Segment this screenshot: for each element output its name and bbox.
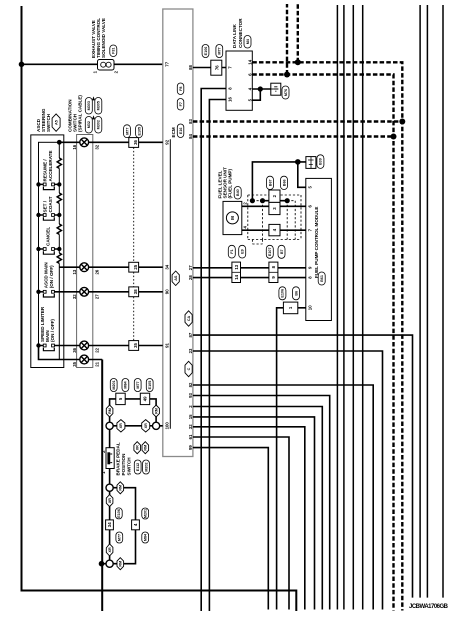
svg-text:E16: E16 bbox=[179, 128, 183, 135]
spiral cable box bbox=[77, 135, 93, 368]
svg-text:M84: M84 bbox=[124, 380, 128, 388]
svg-text:88: 88 bbox=[188, 65, 193, 70]
connector oval F1 bbox=[228, 245, 235, 258]
connector oval M84 bbox=[142, 532, 149, 543]
svg-text:93: 93 bbox=[188, 393, 193, 398]
svg-text:E106: E106 bbox=[204, 47, 208, 56]
node output top bbox=[57, 140, 62, 145]
hexagon RM lower right branch bbox=[117, 482, 124, 494]
svg-text:XR: XR bbox=[135, 445, 139, 450]
inline connector box 38 on wire 292 bbox=[129, 287, 139, 297]
wire pass-through vertical 4 bbox=[362, 5, 364, 610]
connector oval B6 bbox=[293, 287, 300, 300]
svg-text:22: 22 bbox=[95, 347, 100, 352]
svg-text:RM: RM bbox=[144, 445, 148, 451]
spiral cable crossing symbol row 16/32 bbox=[80, 138, 89, 147]
svg-text:14: 14 bbox=[234, 274, 239, 279]
svg-text:M201: M201 bbox=[143, 509, 147, 518]
svg-text:M77: M77 bbox=[136, 381, 140, 388]
wire ground bus output 35/21 turning down bbox=[39, 346, 103, 360]
svg-text:(SPIRAL CABLE): (SPIRAL CABLE) bbox=[78, 95, 83, 132]
inline connector box 36 on wire 142 bbox=[129, 138, 139, 148]
label ASCD STEERING SWITCH bbox=[36, 108, 51, 132]
splice ring right upper bbox=[153, 422, 160, 429]
svg-text:FUEL PUMP CONTROL MODULE: FUEL PUMP CONTROL MODULE bbox=[314, 207, 319, 278]
switch RESUME/ACCELERATE bbox=[36, 182, 61, 189]
svg-text:XR: XR bbox=[108, 498, 112, 503]
svg-text:27: 27 bbox=[188, 265, 193, 270]
svg-text:E106: E106 bbox=[117, 509, 121, 518]
wire steering switch output 16/32 to ECM pin 92 bbox=[59, 141, 163, 143]
svg-text:36: 36 bbox=[72, 347, 77, 352]
svg-text:34: 34 bbox=[164, 264, 169, 269]
svg-text:M303: M303 bbox=[87, 101, 91, 110]
svg-text:M84: M84 bbox=[143, 533, 147, 541]
svg-text:B39: B39 bbox=[319, 158, 323, 165]
wire DLC pin 14 CAN to corner down (shielded dashed) bbox=[252, 62, 402, 610]
hexagon C bbox=[185, 361, 192, 376]
label DATA LINK CONNECTOR bbox=[232, 18, 243, 48]
svg-text:B7: B7 bbox=[280, 249, 284, 254]
connector link dotted line bbox=[133, 147, 135, 340]
svg-text:F8: F8 bbox=[179, 87, 183, 91]
wire ECM pin 61 bbox=[193, 437, 289, 610]
inline connector box 35 on wire 345 bbox=[129, 341, 139, 351]
resistor R3 bbox=[57, 224, 62, 234]
svg-text:35: 35 bbox=[133, 343, 138, 348]
connector oval M77 bbox=[116, 532, 123, 543]
svg-text:100: 100 bbox=[164, 422, 169, 430]
svg-text:M77: M77 bbox=[218, 47, 222, 54]
node ground tie bbox=[258, 86, 263, 91]
connector oval B7 bbox=[278, 245, 285, 258]
svg-text:10: 10 bbox=[307, 305, 312, 310]
connector oval E107 bbox=[266, 245, 273, 258]
wire brake RM variant loop lower bbox=[102, 488, 136, 564]
svg-text:M77: M77 bbox=[125, 128, 129, 135]
svg-text:RESUME /: RESUME / bbox=[43, 159, 48, 182]
connector oval M201 bbox=[142, 508, 149, 519]
connector oval E106 bbox=[279, 287, 286, 300]
svg-text:E106: E106 bbox=[281, 289, 285, 298]
svg-text:RM: RM bbox=[108, 408, 112, 414]
connector oval E106 bbox=[115, 508, 122, 519]
wire brake switch feed down bbox=[109, 426, 111, 448]
spiral cable crossing symbol row 36/22 bbox=[80, 341, 89, 350]
svg-text:BRAKE PEDAL: BRAKE PEDAL bbox=[116, 442, 121, 475]
svg-text:DATA LINK: DATA LINK bbox=[232, 23, 237, 48]
svg-text:28: 28 bbox=[188, 275, 193, 280]
connector oval E106 bbox=[202, 45, 209, 58]
svg-text:36: 36 bbox=[133, 140, 138, 145]
connector oval E105 bbox=[136, 125, 143, 138]
wire ECM pin 28 to FPCM pin 8 bbox=[193, 277, 306, 279]
connector oval M4 bbox=[244, 36, 251, 49]
svg-text:99: 99 bbox=[188, 445, 193, 450]
svg-text:49: 49 bbox=[142, 396, 147, 401]
svg-text:32: 32 bbox=[95, 144, 100, 149]
svg-text:M76: M76 bbox=[284, 89, 288, 96]
connector oval M202 bbox=[143, 460, 150, 474]
inline connector box 34 bbox=[106, 520, 114, 530]
label COMBINATION SWITCH (SPIRAL CABLE) bbox=[68, 95, 83, 132]
svg-text:77: 77 bbox=[164, 61, 169, 66]
wire fuel feed to B39 bbox=[252, 162, 306, 201]
wire DLC pin 4 to ground bbox=[252, 88, 270, 90]
svg-text:92: 92 bbox=[164, 139, 169, 144]
connector oval E16 bbox=[177, 124, 184, 138]
ASCD steering switch outer box bbox=[31, 135, 64, 368]
label FUEL LEVEL SENSOR UNIT (FUEL PUMP) bbox=[218, 167, 233, 199]
ECM internal variant wire bbox=[169, 139, 171, 429]
wire ECM pin 93 bbox=[193, 396, 330, 610]
ASCD steering switch inner housing box bbox=[39, 142, 60, 359]
svg-text:90: 90 bbox=[164, 289, 169, 294]
svg-text:61: 61 bbox=[188, 434, 193, 439]
connector oval B39 bbox=[317, 155, 324, 169]
hexagon RM brake label bbox=[142, 442, 149, 454]
connector oval M77 bbox=[134, 379, 141, 392]
spiral cable crossing symbol row 32/27 bbox=[80, 287, 89, 296]
splice ring lower top bbox=[106, 484, 113, 491]
brake pedal position switch bbox=[106, 448, 114, 469]
svg-text:E107: E107 bbox=[268, 247, 272, 256]
connector oval F7 bbox=[177, 99, 184, 111]
hexagon XR brake label bbox=[134, 442, 141, 454]
switch CANCEL bbox=[36, 247, 61, 254]
svg-text:RM: RM bbox=[119, 485, 123, 491]
wire ECM pin 27 to FPCM pin 9 bbox=[193, 267, 306, 269]
hexagon XR right upper bbox=[142, 420, 150, 432]
svg-text:16: 16 bbox=[72, 144, 77, 149]
node CAN-H bbox=[295, 59, 301, 65]
node pin83 joint bbox=[399, 119, 405, 125]
inline connector cells 13/14 bbox=[232, 262, 241, 282]
svg-text:13: 13 bbox=[234, 264, 239, 269]
wire DLC pin 8 to left and down bbox=[201, 89, 226, 612]
arrow bottom pair bbox=[92, 115, 95, 119]
svg-text:M201: M201 bbox=[112, 380, 116, 389]
svg-text:RM: RM bbox=[154, 408, 158, 414]
svg-text:CA: CA bbox=[187, 316, 191, 322]
wire feed to F31 and ECM pin 77 bbox=[22, 63, 163, 65]
svg-text:M77: M77 bbox=[118, 534, 122, 541]
hexagon RM lower bottom bbox=[117, 558, 124, 570]
connector oval M77 bbox=[124, 125, 131, 138]
node pump feed bbox=[250, 198, 255, 203]
wire DLC pin 16 to left and down bbox=[209, 100, 226, 612]
wire sensor pin 2 to FPCM pin 6 bbox=[242, 205, 306, 207]
spiral cable crossing symbol row 35/21 bbox=[80, 355, 89, 364]
connector oval M305 bbox=[95, 98, 102, 115]
svg-text:B67: B67 bbox=[268, 179, 272, 186]
svg-text:COAST: COAST bbox=[48, 196, 53, 212]
connector oval F8 bbox=[177, 83, 184, 95]
svg-text:SWITCH: SWITCH bbox=[127, 457, 132, 476]
wire DLC pin 6 CAN to corner down (shielded dashed) bbox=[252, 75, 393, 611]
ECM box bbox=[163, 9, 193, 457]
wire ECM pin 15 bbox=[193, 417, 315, 610]
svg-text:SET /: SET / bbox=[43, 200, 48, 212]
inline connector box 1 bbox=[283, 302, 297, 314]
svg-text:E9: E9 bbox=[240, 249, 244, 254]
svg-text:35: 35 bbox=[72, 361, 77, 366]
wire CAN branch up page left bbox=[286, 4, 288, 75]
wire ECM pin 32 bbox=[193, 427, 305, 610]
data link connector box M4 bbox=[226, 51, 252, 110]
svg-text:F7: F7 bbox=[179, 102, 183, 106]
svg-text:SWITCH: SWITCH bbox=[46, 113, 51, 132]
wire ECM pin 84 shielded to CAN vertical bbox=[193, 135, 394, 137]
inline connector cell 3 bbox=[269, 202, 280, 214]
spiral cable crossing symbol row 13/26 bbox=[80, 263, 89, 272]
svg-text:87: 87 bbox=[188, 332, 193, 337]
inline connector box 25 on wire 267 bbox=[129, 262, 139, 272]
resistor R2 bbox=[57, 193, 62, 203]
switch ASCD MAIN (ON/OFF) bbox=[36, 290, 54, 297]
svg-text:(FUEL PUMP): (FUEL PUMP) bbox=[228, 169, 233, 199]
switch SPEED LIMITER MAIN (ON/OFF) bbox=[36, 343, 54, 350]
wire ECM pin 87 bbox=[193, 335, 413, 597]
node pin84 joint bbox=[391, 134, 397, 140]
svg-text:27: 27 bbox=[95, 294, 100, 299]
svg-text:14: 14 bbox=[247, 59, 252, 64]
connector oval B61 bbox=[318, 272, 325, 285]
svg-text:F31: F31 bbox=[112, 48, 116, 54]
svg-text:32: 32 bbox=[72, 294, 77, 299]
wire ECM pin 99 bbox=[193, 448, 268, 610]
splice ring left upper bbox=[106, 422, 113, 429]
hexagon RM left upper bbox=[106, 405, 113, 417]
svg-text:15: 15 bbox=[188, 414, 193, 419]
connector oval M76 bbox=[282, 86, 289, 99]
hexagon AS on variant wire bbox=[172, 271, 179, 286]
connector oval B66 bbox=[281, 176, 288, 189]
wire FPCM pin 10 via connector 1 down page bbox=[277, 308, 306, 610]
node pump tap3 bbox=[285, 198, 290, 203]
connector oval E9 bbox=[239, 245, 246, 258]
arrow top pair bbox=[92, 96, 95, 100]
svg-text:M: M bbox=[230, 216, 235, 220]
svg-text:84: 84 bbox=[188, 134, 193, 139]
wire sensor pin 4 to FPCM pin 7 bbox=[242, 229, 306, 231]
fuel level sensor unit box B40 bbox=[223, 201, 242, 234]
motor symbol fuel pump bbox=[226, 212, 238, 224]
svg-text:13: 13 bbox=[72, 269, 77, 274]
svg-text:34: 34 bbox=[107, 522, 112, 527]
svg-text:A5: A5 bbox=[54, 120, 58, 125]
exhaust valve solenoid F31 bbox=[98, 60, 115, 71]
svg-text:JCBWA1706GB: JCBWA1706GB bbox=[409, 604, 449, 610]
splice ring lower bottom bbox=[106, 560, 113, 567]
wire ASCD MAIN output 32/27 to ECM pin 90 bbox=[54, 291, 163, 293]
wire CAN branch up page right bbox=[297, 4, 299, 62]
connector oval M32 bbox=[85, 117, 92, 134]
svg-text:ECM: ECM bbox=[171, 127, 176, 137]
wire ECM pin 82 bbox=[193, 385, 373, 610]
svg-text:26: 26 bbox=[95, 269, 100, 274]
wire brake RM variant loop upper bbox=[110, 399, 157, 426]
wire ECM pin 83 shielded to CAN vertical bbox=[193, 120, 402, 122]
svg-text:POSITION: POSITION bbox=[121, 453, 126, 476]
wire brake switch pin 1 down bbox=[109, 469, 111, 564]
svg-text:B40: B40 bbox=[236, 189, 240, 196]
svg-text:B61: B61 bbox=[320, 275, 324, 282]
svg-text:76: 76 bbox=[214, 65, 219, 70]
connector oval M201 bbox=[110, 379, 117, 392]
svg-text:CANCEL: CANCEL bbox=[45, 227, 50, 246]
connector oval M302 bbox=[95, 117, 102, 134]
svg-text:32: 32 bbox=[188, 424, 193, 429]
resistor R4 bbox=[57, 253, 62, 263]
wire branch to FPCM pin 5 bbox=[298, 162, 306, 187]
svg-text:ASCD MAIN: ASCD MAIN bbox=[44, 262, 49, 289]
svg-text:M202: M202 bbox=[144, 462, 148, 471]
svg-text:82: 82 bbox=[188, 382, 193, 387]
wire ECM pin 88 to DLC pin 7 bbox=[193, 67, 226, 69]
connector oval M303 bbox=[85, 98, 92, 115]
svg-text:21: 21 bbox=[95, 361, 100, 366]
inline connector cells 8/9 bbox=[269, 262, 278, 282]
hexagon RM right upper bbox=[153, 405, 160, 417]
inline connector box 5 on RM loop bbox=[116, 393, 125, 404]
hexagon A5 bbox=[52, 114, 60, 131]
wire pass-through vertical 1 bbox=[336, 5, 338, 610]
svg-text:RM: RM bbox=[119, 561, 123, 567]
wire pass-through vertical 7 bbox=[442, 5, 444, 598]
svg-text:B66: B66 bbox=[282, 179, 286, 186]
wire pass-through vertical 6 bbox=[426, 5, 428, 598]
inline connector box 76 bbox=[211, 60, 222, 75]
svg-text:M32: M32 bbox=[87, 121, 91, 128]
wire main feed line left: vertical, bottom horizontal, down to edge bbox=[22, 6, 297, 611]
fuel pump internal dashed harness bbox=[248, 195, 301, 244]
connector oval M77 bbox=[216, 45, 223, 58]
wire pass-through vertical 5 bbox=[419, 5, 421, 598]
node brake ground tie bbox=[99, 561, 105, 567]
fuel pump control module box B61 bbox=[306, 178, 332, 320]
label BRAKE PEDAL POSITION SWITCH bbox=[116, 442, 132, 475]
connector oval M84 bbox=[122, 379, 129, 392]
svg-text:M305: M305 bbox=[97, 101, 101, 110]
svg-text:E105: E105 bbox=[137, 127, 141, 136]
svg-text:(ON / OFF): (ON / OFF) bbox=[49, 265, 54, 288]
node pump tap2 bbox=[260, 198, 265, 203]
connector oval B67 bbox=[267, 176, 274, 189]
inline connector box 49 on RM loop bbox=[140, 393, 149, 404]
svg-text:E105: E105 bbox=[148, 381, 152, 390]
wire CANCEL bus output 13/26 to ECM pin 34 bbox=[59, 266, 163, 268]
wire pass-through vertical 2 bbox=[343, 5, 345, 610]
svg-text:16: 16 bbox=[228, 97, 233, 102]
switch SET/COAST bbox=[36, 213, 61, 220]
svg-text:XR: XR bbox=[119, 423, 123, 428]
inline connector box 4 bbox=[132, 520, 140, 530]
inline connector cell 2 bbox=[269, 190, 280, 202]
ground symbol M76 bbox=[271, 83, 281, 95]
wire pump row solid segments bbox=[263, 200, 288, 202]
svg-text:ACCELERATE: ACCELERATE bbox=[48, 150, 53, 181]
hexagon CA bbox=[185, 311, 192, 326]
wire SPEED LIMITER output 36/22 to ECM pin 91 bbox=[54, 345, 163, 347]
svg-text:XR: XR bbox=[108, 547, 112, 552]
connector oval F31 bbox=[110, 45, 117, 57]
wire pass-through vertical 3 bbox=[352, 5, 354, 610]
svg-text:38: 38 bbox=[133, 289, 138, 294]
svg-text:25: 25 bbox=[133, 264, 138, 269]
svg-text:23: 23 bbox=[188, 348, 193, 353]
inline connector cell 4 bbox=[269, 224, 280, 235]
svg-text:C: C bbox=[187, 367, 191, 370]
svg-text:(ON / OFF): (ON / OFF) bbox=[50, 319, 55, 342]
svg-text:83: 83 bbox=[188, 119, 193, 124]
svg-text:XR: XR bbox=[144, 423, 148, 428]
wire brake feed vertical bbox=[101, 360, 103, 612]
label EXHAUST VALVE TIMING CONTROL SOLENOID VALVE bbox=[91, 18, 106, 58]
svg-text:B6: B6 bbox=[294, 291, 298, 296]
hexagon XR lower path 2 bbox=[106, 544, 113, 556]
resistor R1 bbox=[57, 158, 62, 168]
connector stub B39 bbox=[306, 157, 316, 169]
node feed split bbox=[295, 159, 301, 165]
connector oval E112 bbox=[134, 460, 141, 474]
connector oval E105 bbox=[146, 379, 153, 392]
node CAN-L bbox=[284, 72, 290, 78]
svg-text:M302: M302 bbox=[97, 120, 101, 129]
hexagon XR left upper bbox=[117, 420, 125, 432]
node junction on feed line to F31 bbox=[19, 62, 25, 68]
svg-text:F1: F1 bbox=[230, 249, 234, 253]
hexagon XR lower path bbox=[106, 495, 113, 507]
wire ECM pin 23 bbox=[193, 351, 383, 610]
connector oval B40 bbox=[234, 187, 241, 200]
wire ECM pin 100 brake signal bbox=[110, 425, 163, 427]
svg-text:91: 91 bbox=[164, 343, 169, 348]
wire ECM pin 2 bbox=[193, 407, 322, 610]
svg-text:SOLENOID VALVE: SOLENOID VALVE bbox=[101, 18, 106, 58]
svg-text:CONNECTOR: CONNECTOR bbox=[238, 18, 243, 48]
wire DLC pin 5 jog to ground node bbox=[252, 89, 260, 100]
svg-text:E112: E112 bbox=[136, 463, 140, 471]
svg-text:AS: AS bbox=[174, 275, 178, 281]
